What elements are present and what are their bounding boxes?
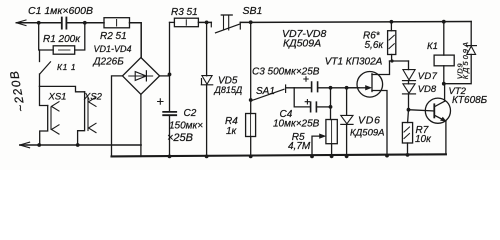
svg-text:КД509А: КД509А [461,40,470,79]
svg-text:VD1-VD4: VD1-VD4 [94,44,132,54]
svg-text:С3 500мк×25В: С3 500мк×25В [252,67,320,78]
svg-text:VD7: VD7 [418,71,438,82]
svg-text:SB1: SB1 [243,5,263,17]
svg-text:С1 1мк×600В: С1 1мк×600В [28,5,93,17]
svg-text:4,7М: 4,7М [288,141,311,152]
svg-text:VD6: VD6 [358,115,381,127]
svg-text:R3 51: R3 51 [171,7,198,18]
svg-text:С2: С2 [184,108,197,119]
svg-text:×25В: ×25В [167,132,193,144]
svg-text:1к: 1к [226,126,238,137]
svg-text:10мк×25В: 10мк×25В [273,119,320,130]
svg-text:К1 1: К1 1 [57,62,76,72]
svg-text:VT1 КП302А: VT1 КП302А [325,57,383,68]
svg-text:XS2: XS2 [83,92,103,103]
svg-text:XS1: XS1 [48,92,67,103]
svg-text:10к: 10к [415,134,432,145]
svg-text:SA1: SA1 [256,86,275,97]
svg-text:КД509А: КД509А [350,128,384,139]
svg-text:R1 200к: R1 200к [43,34,81,45]
svg-text:Д815Д: Д815Д [214,85,243,95]
svg-text:Д226Б: Д226Б [93,57,125,68]
svg-text:VD8: VD8 [418,84,437,95]
svg-text:КТ608Б: КТ608Б [452,95,488,106]
svg-text:R2 51: R2 51 [100,31,127,42]
svg-text:К1: К1 [427,41,438,52]
svg-text:КД509А: КД509А [283,38,321,50]
svg-text:150мк×: 150мк× [169,121,203,132]
svg-text:5,6к: 5,6к [365,40,385,51]
